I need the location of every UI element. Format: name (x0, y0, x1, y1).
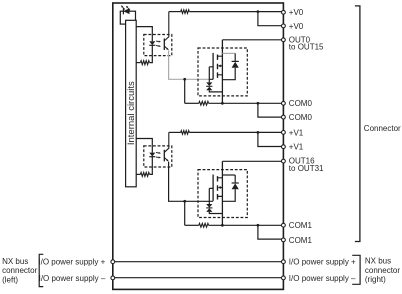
resistor R1a (181, 10, 190, 14)
terminal COM1 (282, 238, 286, 242)
resistor R1c (199, 101, 209, 105)
wire collector to R1a (169, 11, 181, 13)
wire gate branch to R2c (185, 224, 199, 226)
resistor R2c (199, 223, 209, 227)
I/O power supply + rail (113, 261, 284, 263)
MOSFET Q2 box (198, 170, 247, 218)
COM branch junction (257, 224, 260, 227)
svg-text:NX bus: NX bus (2, 257, 28, 266)
terminal I/O power supply + (282, 260, 286, 264)
MOSFET Q2 gate (209, 188, 213, 204)
terminal I/O power supply - (282, 276, 286, 280)
MOSFET Q2 terminals (218, 178, 223, 197)
terminal OUT16 (282, 159, 286, 163)
svg-text:to OUT31: to OUT31 (289, 164, 324, 173)
NX bus connector right bracket (352, 255, 360, 284)
optocoupler PC2 (144, 146, 172, 167)
junction source-COM (221, 102, 224, 105)
svg-text:+V0: +V0 (289, 22, 304, 31)
COM branch junction (257, 102, 260, 105)
zener ZD2 (206, 204, 212, 208)
svg-text:COM1: COM1 (289, 221, 313, 230)
+V branch junction (257, 10, 260, 13)
MOSFET Q1 terminals (218, 56, 223, 75)
terminal +V0 (282, 10, 286, 14)
wire opto LED anode (136, 139, 152, 146)
svg-text:+V1: +V1 (289, 128, 304, 137)
wire opto LED anode (136, 27, 152, 35)
gate drive wire (169, 50, 210, 79)
terminal COM0 (282, 115, 286, 119)
internal circuits box (126, 20, 137, 187)
terminal +V1 (282, 145, 286, 149)
unit outline box (113, 3, 284, 289)
optocoupler PC1 (144, 35, 172, 56)
svg-text:COM1: COM1 (289, 236, 313, 245)
wire collector to R2a (169, 131, 181, 133)
svg-text:NX bus: NX bus (365, 257, 391, 266)
wire opto LED cathode (150, 167, 153, 174)
svg-text:+V0: +V0 (289, 8, 304, 17)
opto light arrows (156, 152, 159, 154)
terminal I/O power supply + left (111, 260, 115, 264)
wire R1a to +V terminal (189, 11, 281, 13)
terminal +V1 (282, 131, 286, 135)
MOSFET Q1 box (198, 48, 247, 96)
MOSFET Q1 gate (209, 67, 213, 83)
svg-text:to OUT15: to OUT15 (289, 43, 324, 52)
svg-text:+V1: +V1 (289, 143, 304, 152)
svg-text:I/O power supply –: I/O power supply – (289, 274, 356, 283)
svg-text:COM0: COM0 (289, 113, 313, 122)
svg-text:connector: connector (2, 266, 37, 275)
wire R1b to internal circuits (136, 62, 140, 64)
resistor R1b (140, 61, 149, 65)
diode D1 (222, 52, 235, 54)
gate junction (183, 200, 186, 203)
indicator LED loop box (120, 11, 135, 24)
svg-text:I/O power supply +: I/O power supply + (38, 258, 105, 267)
gate drive wire (169, 162, 210, 202)
OUT wire (222, 160, 281, 162)
OUT wire (222, 39, 281, 41)
svg-text:(left): (left) (2, 275, 18, 284)
terminal I/O power supply - left (111, 276, 115, 280)
svg-text:COM0: COM0 (289, 99, 313, 108)
junction source-COM (221, 224, 224, 227)
wire COM rail (209, 224, 282, 226)
opto LED (151, 35, 153, 42)
wire R2b to internal circuits (136, 173, 140, 175)
terminal COM0 (282, 101, 286, 105)
NX bus connector left bracket (39, 254, 43, 286)
terminal OUT0 (282, 38, 286, 42)
svg-text:Connector: Connector (364, 124, 401, 133)
diode D2 (222, 174, 235, 176)
terminal COM1 (282, 223, 286, 227)
indicator LED D1 (122, 8, 124, 14)
wire R2a to +V terminal (189, 131, 281, 133)
terminal +V0 (282, 24, 286, 28)
opto phototransistor (163, 150, 165, 162)
opto phototransistor (163, 38, 165, 50)
svg-text:connector: connector (365, 266, 400, 275)
gate junction (183, 78, 186, 81)
wire gate branch to R1c (185, 102, 199, 104)
svg-text:Internal circuits: Internal circuits (126, 81, 137, 145)
resistor R2b (140, 172, 149, 176)
zener ZD1 (206, 82, 212, 86)
opto LED (151, 146, 153, 153)
wire opto LED cathode (150, 56, 153, 63)
+V branch junction (257, 131, 260, 134)
svg-text:(right): (right) (365, 275, 386, 284)
wire COM rail (209, 102, 282, 104)
connector bracket (355, 6, 360, 242)
resistor R2a (181, 131, 190, 135)
MOSFET Q1 channel (217, 55, 219, 78)
I/O power supply - rail (113, 277, 284, 279)
svg-text:I/O power supply –: I/O power supply – (39, 274, 106, 283)
svg-text:I/O power supply +: I/O power supply + (289, 258, 356, 267)
MOSFET Q2 channel (217, 176, 219, 199)
opto light arrows (156, 40, 159, 42)
